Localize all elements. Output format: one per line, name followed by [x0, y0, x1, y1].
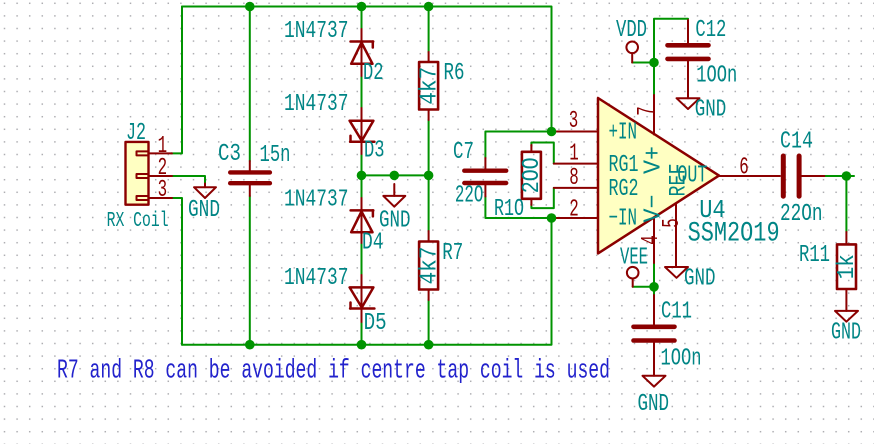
ground at REF pin — [665, 267, 688, 278]
wire RG1 loop — [531, 143, 553, 164]
svg-text:3: 3 — [158, 177, 168, 204]
svg-text:RX Coil: RX Coil — [107, 210, 169, 233]
diode D4 pin stubs — [361, 198, 363, 243]
svg-text:1: 1 — [569, 141, 579, 168]
junction mid R6 — [424, 171, 434, 181]
junction top D2 — [357, 2, 367, 12]
capacitor C12 — [668, 20, 709, 98]
svg-text:OUT: OUT — [677, 162, 707, 189]
wire R11 top — [845, 176, 847, 232]
wire VDD stub — [632, 62, 654, 64]
junction -IN node — [547, 213, 557, 223]
pin 7 wire V+ — [653, 95, 655, 135]
svg-text:C14: C14 — [780, 129, 813, 156]
svg-text:1N4737: 1N4737 — [284, 18, 349, 45]
wire resistor column — [428, 7, 430, 53]
wire left rail lower — [171, 198, 182, 345]
wire left rail upper — [171, 7, 182, 154]
pin 1 of J2 — [149, 152, 173, 154]
wire C7 bottom branch — [485, 197, 551, 219]
junction bottom D5 — [357, 340, 367, 350]
svg-text:2: 2 — [569, 197, 579, 224]
svg-text:GND: GND — [379, 208, 411, 235]
svg-text:15n: 15n — [260, 142, 291, 169]
resistor R10 — [522, 145, 541, 205]
svg-text:R1O: R1O — [494, 196, 524, 223]
svg-text:1OOn: 1OOn — [696, 63, 737, 90]
svg-text:1k: 1k — [834, 254, 861, 279]
svg-text:V−: V− — [640, 195, 667, 223]
svg-text:C7: C7 — [453, 139, 474, 166]
junction bottom C3 — [245, 340, 255, 350]
pin 8 wire RG2 — [554, 187, 598, 189]
svg-text:1N4737: 1N4737 — [284, 91, 349, 118]
svg-text:3: 3 — [569, 108, 579, 135]
pin 4 wire V- — [653, 217, 655, 263]
svg-text:R11: R11 — [799, 242, 830, 269]
svg-text:D5: D5 — [364, 310, 387, 337]
capacitor C3 — [230, 161, 270, 196]
svg-text:C12: C12 — [695, 17, 726, 44]
ground at mid rail — [383, 184, 405, 207]
svg-text:+IN: +IN — [609, 120, 638, 147]
svg-text:C11: C11 — [661, 299, 692, 326]
capacitor C11 — [634, 295, 675, 376]
junction VEE — [649, 282, 659, 292]
wire C7 top branch — [485, 132, 551, 159]
junction output — [842, 171, 852, 181]
svg-text:RG1: RG1 — [609, 152, 639, 179]
connector J2 — [126, 142, 149, 205]
svg-text:4: 4 — [638, 235, 665, 245]
ground below C11 — [643, 376, 666, 387]
svg-text:R6: R6 — [444, 60, 465, 87]
diode D2 pin stubs — [361, 29, 363, 76]
svg-text:RG2: RG2 — [609, 176, 639, 203]
svg-text:8: 8 — [569, 165, 579, 192]
ground at J2 pin2 — [194, 184, 216, 199]
junction mid D3 — [357, 171, 367, 181]
svg-text:V+: V+ — [640, 146, 667, 174]
capacitor C7 — [464, 158, 506, 197]
svg-text:2OO: 2OO — [519, 157, 546, 193]
svg-text:C3: C3 — [218, 141, 241, 168]
svg-text:R7 and R8 can be avoided if ce: R7 and R8 can be avoided if centre tap c… — [57, 357, 610, 387]
pin 2 wire -IN — [552, 217, 598, 219]
svg-text:J2: J2 — [126, 120, 146, 147]
wire RG2 loop — [531, 188, 553, 208]
ground below C12 — [677, 98, 700, 109]
svg-text:6: 6 — [739, 155, 749, 182]
diode D5 — [350, 287, 375, 308]
svg-text:D3: D3 — [364, 138, 385, 165]
diode D4 — [351, 210, 374, 232]
pin 3 of J2 — [149, 197, 173, 199]
pin 3 wire +IN — [552, 131, 598, 133]
pin 5 wire REF — [675, 203, 677, 267]
wire V+ rail — [654, 19, 688, 95]
svg-text:1N4737: 1N4737 — [284, 187, 349, 214]
svg-text:4k7: 4k7 — [416, 67, 443, 105]
svg-text:VEE: VEE — [620, 245, 648, 272]
svg-text:22O: 22O — [455, 183, 484, 210]
diode D5 pin stubs — [361, 275, 363, 322]
capacitor C14 — [783, 156, 824, 196]
pin 1 wire RG1 — [554, 163, 598, 165]
junction +IN node — [547, 127, 557, 137]
wire top rail — [182, 7, 552, 132]
svg-text:7: 7 — [634, 106, 661, 116]
resistor R7 — [419, 231, 438, 300]
wire output node — [824, 175, 854, 177]
junction top R6 — [424, 2, 434, 12]
svg-text:1N4737: 1N4737 — [284, 265, 349, 292]
wire VEE stub — [633, 286, 654, 288]
power VDD — [626, 42, 638, 63]
resistor R6 — [419, 52, 438, 120]
wire bottom rail — [182, 218, 552, 345]
svg-text:GND: GND — [188, 197, 220, 224]
wire mid rail — [362, 174, 429, 176]
svg-text:GND: GND — [695, 96, 727, 123]
resistor R11 — [837, 232, 856, 311]
wire V- column — [653, 263, 655, 295]
op-amp U1 body — [598, 98, 719, 253]
svg-text:VDD: VDD — [616, 17, 647, 44]
svg-text:D2: D2 — [363, 60, 384, 87]
pin 6 wire OUT — [719, 175, 780, 177]
diode D2 — [351, 42, 374, 64]
svg-text:SSM2O19: SSM2O19 — [688, 218, 780, 249]
power VEE — [627, 267, 639, 287]
svg-text:GND: GND — [638, 391, 670, 418]
diode D3 — [350, 121, 375, 142]
ground below R11 — [835, 311, 858, 322]
svg-text:1OOn: 1OOn — [661, 346, 702, 373]
junction mid GND — [390, 171, 400, 181]
svg-text:R7: R7 — [442, 240, 463, 267]
svg-text:22On: 22On — [780, 201, 823, 228]
svg-text:GND: GND — [831, 320, 861, 347]
svg-text:GND: GND — [684, 266, 716, 293]
wire C3 column — [249, 7, 251, 162]
pin 2 of J2 — [149, 175, 173, 177]
svg-text:4k7: 4k7 — [416, 247, 443, 285]
wire diode column — [361, 7, 363, 345]
wire J2 pin2 to ground — [172, 176, 205, 184]
junction top C3 — [245, 2, 255, 12]
junction VDD — [649, 58, 659, 68]
diode D3 pin stubs — [361, 108, 363, 154]
svg-text:−IN: −IN — [609, 205, 638, 232]
junction bottom R7 — [424, 340, 434, 350]
